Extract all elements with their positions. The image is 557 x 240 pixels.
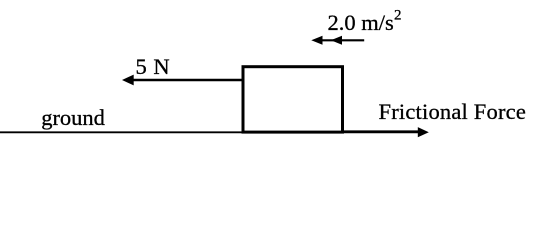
- svg-text:Frictional Force: Frictional Force: [379, 99, 527, 124]
- acceleration arrowhead (inner): [331, 36, 342, 45]
- frictional force arrow shaft: [343, 130, 420, 133]
- acceleration arrow shaft: [318, 39, 364, 41]
- 5 N force arrow shaft: [132, 79, 244, 81]
- frictional force arrowhead: [418, 127, 429, 137]
- svg-text:5 N: 5 N: [136, 54, 171, 79]
- 5 N force arrowhead: [122, 75, 134, 86]
- svg-text:ground: ground: [41, 105, 105, 130]
- svg-text:2.0 m/s: 2.0 m/s: [328, 10, 394, 35]
- block (box on ground): [243, 67, 343, 132]
- acceleration arrowhead (outer): [311, 36, 322, 45]
- ground line (wire): [0, 131, 420, 133]
- svg-text:2: 2: [394, 8, 402, 24]
